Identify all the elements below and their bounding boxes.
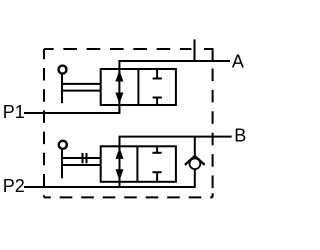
valve V1 manual actuator <box>59 66 102 104</box>
valve V1 arrow position <box>115 69 123 105</box>
wire A line <box>119 61 230 69</box>
enclosure border bottom-right corner dash <box>212 193 214 197</box>
wire valve V1 bottom port <box>118 105 120 113</box>
wire P1 line <box>24 105 119 113</box>
valve V2 body <box>101 146 176 182</box>
wire B line <box>120 137 232 147</box>
enclosure dashed border left edge <box>43 49 45 197</box>
svg-text:P2: P2 <box>3 176 25 196</box>
wire valve V2 bottom port <box>119 182 121 187</box>
svg-text:P1: P1 <box>3 102 25 122</box>
valve V1 blocked ports position <box>153 69 162 105</box>
wire P2 line <box>24 169 195 187</box>
enclosure dashed border top edge <box>44 48 191 50</box>
enclosure dashed border right edge <box>212 69 214 189</box>
valve V2 arrow position <box>116 146 124 182</box>
valve V2 blocked ports position <box>152 146 161 182</box>
check valve CV1 <box>185 137 205 170</box>
enclosure border top-right solid corner <box>204 49 213 61</box>
valve V1 body <box>101 69 176 105</box>
wire top stub above A line <box>194 39 196 61</box>
svg-text:A: A <box>232 51 244 71</box>
svg-text:B: B <box>234 126 246 146</box>
valve V2 manual actuator with detent <box>59 141 101 179</box>
enclosure dashed border bottom edge <box>44 196 213 198</box>
